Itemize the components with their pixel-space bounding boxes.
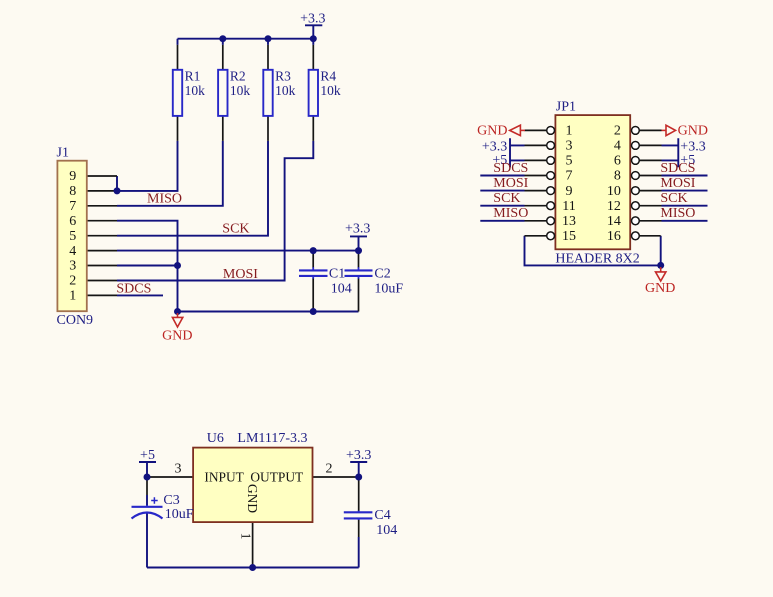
svg-text:6: 6	[69, 214, 76, 229]
svg-text:U6: U6	[207, 431, 224, 446]
svg-text:C1: C1	[329, 266, 345, 281]
svg-text:3: 3	[69, 259, 76, 274]
svg-text:R2: R2	[230, 68, 246, 83]
svg-text:GND: GND	[245, 484, 260, 513]
svg-text:12: 12	[607, 199, 621, 214]
svg-text:C3: C3	[163, 493, 179, 508]
svg-text:GND: GND	[477, 124, 507, 139]
svg-text:6: 6	[614, 154, 621, 169]
svg-text:MOSI: MOSI	[223, 267, 258, 282]
svg-text:10uF: 10uF	[374, 282, 403, 297]
svg-text:J1: J1	[57, 145, 69, 160]
svg-text:9: 9	[69, 169, 76, 184]
svg-text:10k: 10k	[185, 83, 206, 98]
svg-text:SDCS: SDCS	[493, 161, 528, 176]
svg-text:GND: GND	[645, 281, 675, 296]
svg-text:4: 4	[614, 139, 621, 154]
svg-text:2: 2	[614, 124, 621, 139]
svg-text:+5: +5	[140, 448, 155, 463]
svg-text:C2: C2	[374, 266, 390, 281]
svg-text:3: 3	[566, 139, 573, 154]
svg-text:10k: 10k	[230, 83, 251, 98]
svg-text:GND: GND	[678, 124, 708, 139]
svg-text:7: 7	[69, 199, 76, 214]
svg-text:LM1117-3.3: LM1117-3.3	[237, 431, 307, 446]
svg-text:7: 7	[566, 169, 573, 184]
svg-text:HEADER 8X2: HEADER 8X2	[555, 251, 639, 266]
svg-text:2: 2	[326, 461, 333, 476]
svg-text:+3.3: +3.3	[346, 448, 371, 463]
svg-text:8: 8	[614, 169, 621, 184]
svg-text:SDCS: SDCS	[116, 282, 151, 297]
svg-text:SCK: SCK	[222, 222, 249, 237]
svg-text:R1: R1	[185, 68, 201, 83]
svg-text:MOSI: MOSI	[493, 176, 528, 191]
svg-text:3: 3	[175, 461, 182, 476]
svg-text:MISO: MISO	[660, 206, 695, 221]
svg-text:14: 14	[607, 214, 621, 229]
svg-text:9: 9	[566, 184, 573, 199]
svg-text:2: 2	[69, 274, 76, 289]
svg-text:MISO: MISO	[147, 192, 182, 207]
svg-text:+3.3: +3.3	[300, 11, 325, 26]
svg-text:10uF: 10uF	[165, 507, 194, 522]
svg-text:5: 5	[69, 229, 76, 244]
svg-text:10: 10	[607, 184, 621, 199]
svg-text:OUTPUT: OUTPUT	[250, 469, 303, 484]
svg-text:10k: 10k	[275, 83, 296, 98]
svg-text:4: 4	[69, 244, 76, 259]
svg-text:13: 13	[562, 214, 576, 229]
svg-text:R3: R3	[275, 68, 291, 83]
svg-text:MOSI: MOSI	[660, 176, 695, 191]
svg-text:C4: C4	[374, 508, 390, 523]
svg-text:11: 11	[562, 199, 575, 214]
svg-text:SCK: SCK	[660, 191, 687, 206]
svg-text:10k: 10k	[320, 83, 341, 98]
svg-text:+3.3: +3.3	[345, 221, 370, 236]
svg-text:1: 1	[69, 289, 76, 304]
svg-text:104: 104	[376, 523, 397, 538]
svg-text:INPUT: INPUT	[204, 469, 243, 484]
svg-text:MISO: MISO	[493, 206, 528, 221]
svg-text:1: 1	[239, 533, 254, 540]
svg-text:GND: GND	[162, 328, 192, 343]
svg-text:SDCS: SDCS	[660, 161, 695, 176]
svg-text:1: 1	[566, 124, 573, 139]
svg-text:JP1: JP1	[556, 100, 576, 115]
svg-text:15: 15	[562, 229, 576, 244]
svg-text:5: 5	[566, 154, 573, 169]
svg-text:104: 104	[331, 282, 352, 297]
svg-text:8: 8	[69, 184, 76, 199]
svg-text:16: 16	[607, 229, 621, 244]
svg-text:CON9: CON9	[57, 313, 94, 328]
svg-text:R4: R4	[320, 68, 336, 83]
svg-text:SCK: SCK	[493, 191, 520, 206]
